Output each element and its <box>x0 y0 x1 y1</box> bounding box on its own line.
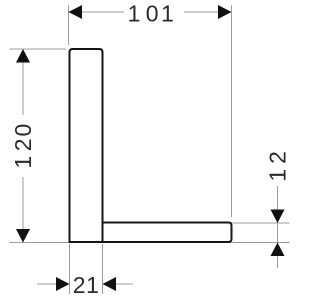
extension line right of dim 101 <box>231 5 233 217</box>
label 12 <box>264 151 290 181</box>
svg-text:0: 0 <box>146 1 159 27</box>
baseline / bottom extension line <box>10 242 290 244</box>
arrow 21 right <box>103 277 117 291</box>
extension line left of dim 21 <box>69 244 71 294</box>
arrow 101 right <box>218 5 232 19</box>
svg-text:1: 1 <box>128 1 141 27</box>
extension line right of dim 21 <box>102 244 104 294</box>
dim line 12 <box>277 186 279 268</box>
svg-text:1: 1 <box>86 272 99 298</box>
label 21 <box>73 272 99 298</box>
dim line 120 top segment <box>22 49 24 115</box>
profile vertical bar <box>70 49 103 242</box>
svg-text:1: 1 <box>161 1 174 27</box>
svg-text:1: 1 <box>264 169 290 182</box>
label 120 <box>10 124 36 169</box>
dim line 101 left segment <box>69 11 125 13</box>
dim line 120 bottom segment <box>22 177 24 243</box>
arrow 120 top <box>16 49 30 63</box>
dim line 21 left tail <box>37 283 70 285</box>
extension line left of dim 101 <box>68 5 70 45</box>
arrow 120 bottom <box>16 229 30 243</box>
label 101 <box>128 1 174 27</box>
svg-text:2: 2 <box>10 139 36 152</box>
svg-text:1: 1 <box>10 156 36 169</box>
profile horizontal bar <box>103 223 232 243</box>
dim line 21 right tail <box>103 283 134 285</box>
extension line top of dim 12 <box>232 222 290 224</box>
svg-text:0: 0 <box>10 124 36 137</box>
arrow 12 lower <box>271 243 285 257</box>
arrow 12 upper <box>271 210 285 224</box>
extension line top of dim 120 <box>10 48 67 50</box>
svg-text:2: 2 <box>73 272 86 298</box>
dim line 101 right segment <box>184 11 232 13</box>
svg-text:2: 2 <box>264 151 290 164</box>
arrow 101 left <box>69 5 83 19</box>
arrow 21 left <box>56 277 70 291</box>
